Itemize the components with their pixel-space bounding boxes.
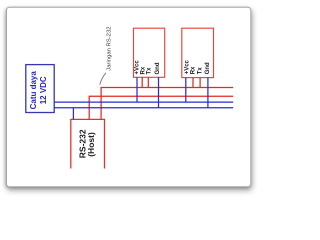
svg-text:Tx: Tx <box>197 67 203 75</box>
wire U1 Gnd pin drop <box>158 77 160 107</box>
svg-text:Gnd: Gnd <box>205 62 211 74</box>
wire U2 Gnd pin drop <box>207 78 209 108</box>
wire blue bus GND with drop to host <box>54 108 233 120</box>
svg-text:Gnd: Gnd <box>155 62 161 74</box>
RS-232 host box U3 (open bottom) <box>71 119 105 168</box>
wire red bus net-RX with drop to host <box>101 88 233 120</box>
power supply box PS1 (Catu daya 12 VDC) <box>26 65 54 113</box>
svg-text:12 VDC: 12 VDC <box>39 76 48 104</box>
wire U1 Tx pin drop <box>147 77 149 87</box>
net label Jaringan RS-232 <box>107 26 113 70</box>
svg-text:Catu daya: Catu daya <box>29 71 38 110</box>
svg-text:Tx: Tx <box>147 67 153 75</box>
wire U2 +Vcc pin drop <box>185 78 187 103</box>
wire U1 +Vcc pin drop <box>136 77 138 102</box>
module box U2 <box>182 28 214 77</box>
leader line for net label <box>100 73 106 85</box>
svg-text:Jaringan RS-232: Jaringan RS-232 <box>107 26 113 70</box>
wire U2 Tx pin drop <box>199 78 201 88</box>
wire blue bus +12V <box>54 101 233 103</box>
wire U1 Rx pin drop <box>141 77 143 87</box>
module box U1 <box>134 28 165 77</box>
page sheet frame <box>7 7 251 187</box>
wire U2 Rx pin drop <box>192 78 194 88</box>
wire red bus net-TX with drop to host <box>89 96 233 119</box>
svg-text:Rx: Rx <box>191 66 197 74</box>
svg-text:Rx: Rx <box>140 66 146 74</box>
svg-text:(Host): (Host) <box>86 132 96 157</box>
